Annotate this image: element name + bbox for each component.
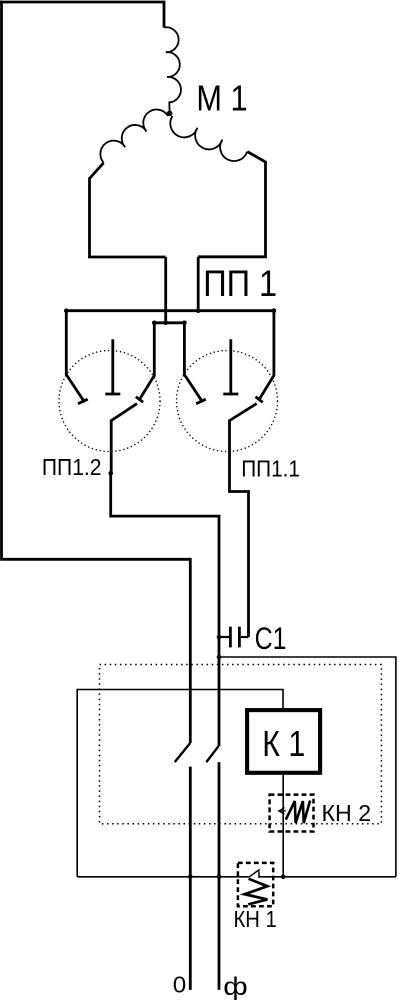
svg-text:С1: С1 bbox=[255, 621, 287, 656]
bus1 horizontal bbox=[66, 309, 274, 312]
node bus1 left bbox=[64, 308, 69, 313]
switch PP1.2 left contact bbox=[66, 311, 87, 404]
relay K1 box bbox=[247, 710, 320, 773]
wire bottom bus right segment bbox=[260, 876, 396, 878]
wire PP1.1 jog to C1 bbox=[230, 490, 250, 637]
switch PP1.1 left contact bbox=[184, 323, 205, 404]
capacitor C1 right plate bbox=[238, 627, 241, 648]
svg-text:М 1: М 1 bbox=[196, 79, 247, 119]
motor M1 winding top coil bbox=[164, 27, 181, 111]
node bus2 center bbox=[163, 321, 168, 326]
node bus1 right bbox=[272, 308, 277, 313]
capacitor C1 left plate bbox=[229, 627, 232, 648]
switch PP1.2 right contact bbox=[136, 323, 154, 402]
wire PP1.2 jog to phase line bbox=[111, 472, 221, 637]
wire right winding end diagonal bbox=[247, 152, 265, 162]
capacitor C1 left lead bbox=[219, 636, 229, 638]
wire motor right vertical bbox=[264, 161, 267, 257]
svg-text:ПП1.2: ПП1.2 bbox=[42, 454, 102, 480]
switch PP1.2 circle bbox=[59, 351, 160, 452]
wire motor left vertical bbox=[88, 178, 91, 258]
wire motor right bottom horizontal bbox=[198, 255, 267, 258]
svg-text:КН 2: КН 2 bbox=[322, 800, 372, 826]
contact K1.2 on phase line bbox=[206, 746, 218, 762]
wire motor right drop to bus1 bbox=[197, 257, 200, 311]
button KN1 thermal zigzag bbox=[245, 879, 268, 905]
node C1 tap bbox=[217, 635, 222, 640]
wire 0-line upper vertical bbox=[189, 558, 192, 743]
wire 0-line lower vertical bbox=[189, 767, 192, 990]
button KN2 thermal zigzag bbox=[286, 801, 310, 824]
switch PP1.1 right contact bbox=[256, 311, 274, 403]
wire outer top horizontal bbox=[0, 1, 164, 4]
wire outer bottom horizontal to 0-line bbox=[0, 558, 190, 561]
bus2 short horizontal bbox=[154, 321, 184, 324]
node phase line on bus bbox=[217, 875, 222, 880]
switch PP1.1 circle bbox=[177, 351, 278, 452]
wire K1 coil loop left box bbox=[77, 690, 283, 877]
switch PP1.1 center contact bbox=[223, 339, 238, 394]
node bus1 center bbox=[196, 308, 201, 313]
button KN2 arrow bbox=[278, 808, 286, 815]
wire K1 to KN2 bbox=[282, 775, 284, 877]
node PP1.2 output bbox=[108, 471, 113, 476]
wire K1 supply thin: right loop bbox=[219, 657, 396, 877]
switch PP1.1 moving arm bbox=[230, 404, 257, 493]
button KN2 dashed box bbox=[270, 795, 314, 832]
node KN2 on bus bbox=[281, 875, 286, 880]
switch PP1.2 center contact bbox=[105, 339, 120, 394]
motor M1 winding right coil bbox=[170, 116, 247, 161]
switch PP1.2 moving arm bbox=[111, 404, 137, 474]
svg-text:ф: ф bbox=[223, 972, 247, 1000]
button KN1 dashed box bbox=[238, 863, 273, 906]
node bus2 right bbox=[182, 321, 187, 326]
svg-text:ПП 1: ПП 1 bbox=[203, 263, 277, 305]
wire motor left drop to bus2 bbox=[164, 257, 167, 323]
contact K1.1 on 0-line bbox=[175, 743, 191, 762]
wire outer left vertical bbox=[0, 1, 3, 560]
node bus2 left bbox=[152, 321, 157, 326]
node 0-line on bus bbox=[188, 875, 193, 880]
wire motor top lead vertical bbox=[163, 1, 166, 28]
button KN1 contact diagonal bbox=[250, 869, 260, 878]
svg-text:КН 1: КН 1 bbox=[234, 906, 277, 933]
capacitor C1 right lead bbox=[241, 636, 249, 638]
enclosure dashed box bbox=[100, 665, 382, 824]
svg-text:ПП1.1: ПП1.1 bbox=[241, 455, 300, 481]
wire phase line lower vertical bbox=[218, 762, 221, 990]
wire motor left bottom horizontal bbox=[88, 256, 166, 259]
motor M1 winding left coil bbox=[100, 110, 168, 163]
svg-text:0: 0 bbox=[173, 972, 186, 997]
wire left winding end diagonal bbox=[90, 163, 104, 179]
motor star point node bbox=[167, 111, 173, 117]
node phase branch bbox=[217, 655, 222, 660]
svg-text:К 1: К 1 bbox=[262, 725, 305, 765]
wire phase line mid vertical bbox=[218, 637, 221, 746]
wire bottom bus left segment bbox=[77, 876, 249, 878]
